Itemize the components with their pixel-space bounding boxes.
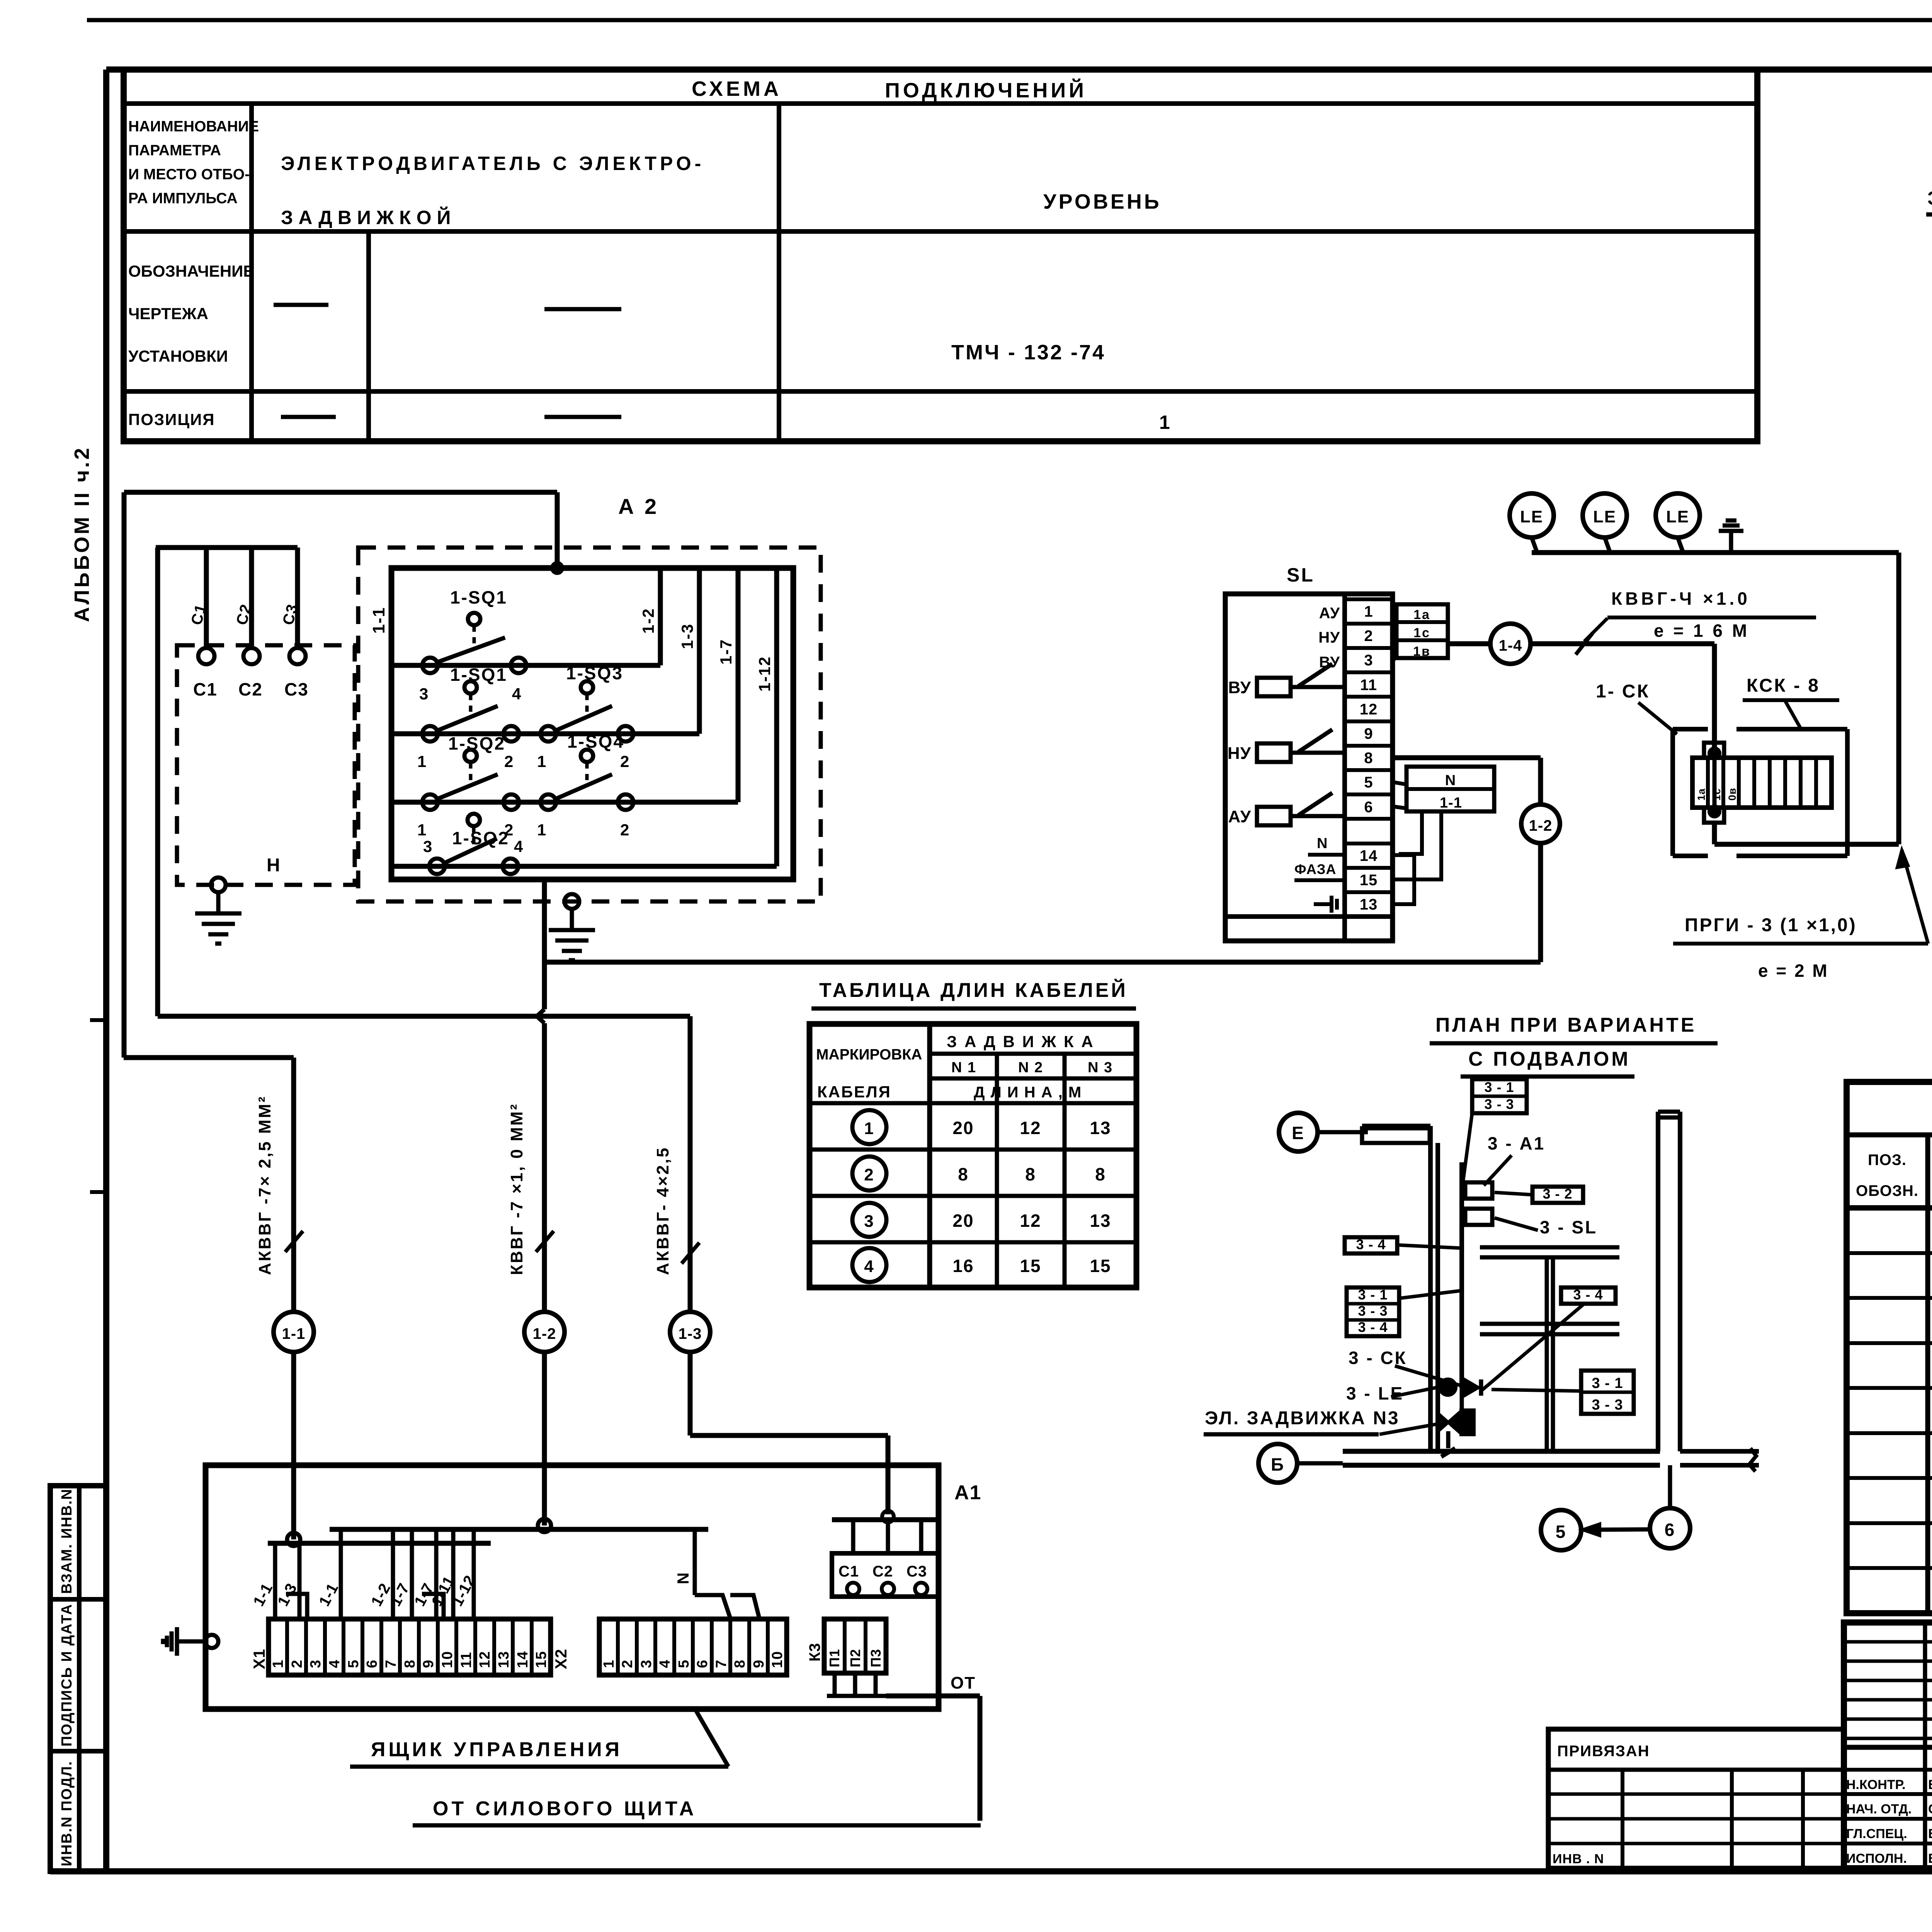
terminal circles C1C2C3 <box>847 1583 927 1595</box>
top table dash r3c1 <box>281 415 336 419</box>
svg-text:1: 1 <box>537 821 547 839</box>
spec row line <box>1847 1296 1932 1300</box>
svg-text:НАЧ. ОТД.: НАЧ. ОТД. <box>1846 1802 1912 1816</box>
svg-text:ПОЗИЦИЯ: ПОЗИЦИЯ <box>128 410 215 429</box>
svg-text:LE: LE <box>1593 507 1616 526</box>
valve N3 motor rect <box>1461 1410 1474 1434</box>
hook terminal6 <box>1393 806 1406 808</box>
label box 3-1 3-3 top <box>1472 1079 1527 1113</box>
wire A2 entry drop <box>555 492 560 568</box>
svg-text:11: 11 <box>458 1652 474 1668</box>
svg-text:НАИМЕНОВАНИЕ: НАИМЕНОВАНИЕ <box>128 118 259 135</box>
cable table header text markirovka <box>816 1046 922 1101</box>
svg-text:C1: C1 <box>193 679 218 699</box>
label C1 <box>193 679 218 699</box>
svg-text:16: 16 <box>952 1256 974 1276</box>
svg-text:N 1: N 1 <box>951 1060 976 1076</box>
hook terminal3 to box <box>1393 657 1396 661</box>
cable table marker 3 <box>852 1203 886 1237</box>
svg-text:Х1: Х1 <box>250 1649 268 1669</box>
wire X1 drop 1-11 <box>451 1529 456 1619</box>
svg-text:1-3: 1-3 <box>679 1325 702 1342</box>
jumper X1 b <box>422 1594 444 1618</box>
switch 1-SQ2 contact 3-4 <box>423 814 524 874</box>
svg-text:ПАРАМЕТРА: ПАРАМЕТРА <box>128 142 221 159</box>
svg-text:1- СК: 1- СК <box>1596 681 1650 702</box>
cable table values row 1 <box>952 1118 1111 1138</box>
svg-text:8: 8 <box>958 1164 969 1184</box>
wire N bundle a <box>1399 811 1422 854</box>
leader 3-1 3-3 right <box>1492 1389 1581 1391</box>
svg-text:1-SQ3: 1-SQ3 <box>566 663 623 683</box>
wire 3 riser to valve <box>1460 1388 1464 1412</box>
svg-text:12: 12 <box>1020 1118 1041 1138</box>
wire splitter bus <box>156 545 298 550</box>
svg-text:N 3: N 3 <box>1088 1060 1113 1076</box>
wire N bundle b <box>1393 811 1441 879</box>
svg-text:Б: Б <box>1271 1454 1285 1475</box>
basement wall bottom a <box>1343 1449 1660 1454</box>
svg-text:3: 3 <box>308 1660 324 1668</box>
sensor circle LE 2 <box>1583 493 1627 553</box>
svg-text:20: 20 <box>952 1211 974 1231</box>
jumper X1 a <box>286 1594 307 1618</box>
svg-text:2: 2 <box>289 1660 305 1668</box>
svg-text:N: N <box>1445 772 1457 789</box>
svg-text:2: 2 <box>1364 628 1373 645</box>
svg-text:9: 9 <box>1364 725 1373 742</box>
drawing frame bottom <box>50 1868 1932 1874</box>
svg-text:12: 12 <box>477 1651 493 1668</box>
wire K3 stubs <box>827 1673 886 1696</box>
svg-text:КВВГ-Ч ×1.0: КВВГ-Ч ×1.0 <box>1611 588 1750 609</box>
cable table header zadvizhka line <box>930 1052 1136 1056</box>
svg-text:15: 15 <box>1360 872 1378 889</box>
cable table header nums line <box>930 1077 1136 1081</box>
svg-text:ЧЕРТЕЖА: ЧЕРТЕЖА <box>128 304 208 323</box>
switch 1-SQ4 contact 1-2 <box>537 731 633 839</box>
svg-text:15: 15 <box>1090 1256 1111 1276</box>
svg-text:ТАБЛИЦА ДЛИН КАБЕЛЕЙ: ТАБЛИЦА ДЛИН КАБЕЛЕЙ <box>819 979 1128 1002</box>
svg-text:15: 15 <box>533 1651 549 1668</box>
label 1-CK <box>1596 681 1677 734</box>
svg-text:КСК - 8: КСК - 8 <box>1747 675 1820 696</box>
basement beam 1 <box>1480 1247 1619 1257</box>
marker circle 1-1 <box>274 1312 314 1352</box>
node 3-LE sensor <box>1440 1379 1456 1395</box>
left stamp label vzam <box>59 1488 75 1594</box>
label box 3-4 left <box>1345 1236 1397 1253</box>
dashed box H motor <box>177 645 355 885</box>
svg-text:1-2: 1-2 <box>639 608 657 634</box>
cable table header text N2 <box>1018 1060 1043 1076</box>
svg-text:0в: 0в <box>1726 787 1738 801</box>
svg-text:З А Д В И Ж К А: З А Д В И Ж К А <box>947 1032 1095 1051</box>
label el zadvizhka N3 <box>1204 1408 1436 1434</box>
spec col line poz <box>1925 1135 1930 1613</box>
terminal C1 <box>198 648 214 664</box>
valve N3 bowtie <box>1438 1413 1458 1431</box>
wire A2 left drop <box>122 492 127 1058</box>
basement riser wire <box>1459 1162 1464 1388</box>
wire top bus to A2 <box>124 490 557 495</box>
label A1 <box>954 1481 981 1504</box>
svg-text:11: 11 <box>1360 677 1377 694</box>
svg-text:N 2: N 2 <box>1018 1060 1043 1076</box>
svg-text:ОТ СИЛОВОГО ЩИТА: ОТ СИЛОВОГО ЩИТА <box>433 1798 697 1820</box>
svg-text:4: 4 <box>657 1660 673 1668</box>
svg-text:1-3: 1-3 <box>678 623 696 649</box>
bus X1 left <box>268 1541 491 1546</box>
svg-text:АКВВГ -7× 2,5 ММ²: АКВВГ -7× 2,5 ММ² <box>255 1095 274 1275</box>
spec header poz <box>1856 1151 1918 1199</box>
basement wall bottom b <box>1343 1463 1660 1468</box>
svg-text:3 - SL: 3 - SL <box>1540 1217 1597 1237</box>
spec row line <box>1847 1386 1932 1390</box>
node wire 1-1 terminal <box>287 1533 300 1546</box>
SL switch NU <box>1228 730 1345 763</box>
box 1a 1c 1B <box>1396 604 1448 659</box>
top table row label 2 <box>128 262 254 365</box>
svg-text:ОТ: ОТ <box>951 1673 976 1692</box>
title grid rows <box>1844 1642 1932 1738</box>
switch 1-SQ3 contact 1-2 <box>537 663 633 770</box>
terminal strip K3 labels <box>827 1649 884 1667</box>
core label 1-2 <box>368 1580 394 1609</box>
svg-text:20: 20 <box>952 1118 974 1138</box>
svg-text:2: 2 <box>504 752 514 770</box>
svg-text:14: 14 <box>1360 847 1378 864</box>
top table outer border <box>124 70 1757 441</box>
svg-text:7: 7 <box>383 1660 399 1668</box>
top table dash r3c2 <box>544 415 621 419</box>
svg-text:ЯЩИК УПРАВЛЕНИЯ: ЯЩИК УПРАВЛЕНИЯ <box>371 1738 622 1761</box>
svg-text:3 - 4: 3 - 4 <box>1358 1319 1388 1335</box>
KCK-8 top clamp <box>1704 743 1724 758</box>
node cable 1-3 entry <box>882 1511 894 1522</box>
svg-text:4: 4 <box>864 1257 874 1276</box>
switch 1-SQ1 contact 3-4 <box>419 587 526 703</box>
svg-text:LE: LE <box>1520 507 1543 526</box>
privyazan rows <box>1548 1794 1844 1844</box>
wire X1 drop 1-3 <box>298 1543 302 1619</box>
svg-text:3 - А1: 3 - А1 <box>1488 1133 1545 1153</box>
top table row label 3 <box>128 410 215 429</box>
wire cable 1-3 vertical <box>688 1016 693 1312</box>
svg-text:9: 9 <box>420 1660 437 1668</box>
svg-text:2: 2 <box>864 1165 874 1184</box>
dashed box A2 <box>358 548 821 901</box>
node cable entry top <box>1709 748 1719 759</box>
equipment rect 3-SL <box>1465 1209 1492 1225</box>
cable mark slash 1-3 <box>682 1243 699 1264</box>
valve N3 stem <box>1441 1431 1455 1457</box>
wire line A 1-2 horizontal <box>544 960 1541 965</box>
svg-text:ПРГИ - 3 (1 ×1,0): ПРГИ - 3 (1 ×1,0) <box>1685 915 1857 935</box>
node wire 1-2 terminal <box>538 1519 551 1532</box>
core label C3 rotated <box>279 602 301 627</box>
svg-text:1-SQ1: 1-SQ1 <box>450 665 507 685</box>
svg-text:КВВГ -7 ×1, 0 ММ²: КВВГ -7 ×1, 0 ММ² <box>507 1103 526 1275</box>
marker circle 1-4 <box>1490 624 1531 664</box>
left stamp label podpis <box>59 1604 75 1747</box>
switch 1-SQ1 contact 1-2 <box>417 665 519 770</box>
svg-text:4: 4 <box>512 685 522 703</box>
svg-text:БОРОДКИН: БОРОДКИН <box>1928 1777 1932 1792</box>
svg-text:1-1: 1-1 <box>369 607 388 634</box>
label KCK-8 <box>1743 675 1839 728</box>
ground under H box <box>195 892 241 944</box>
svg-text:1: 1 <box>417 752 427 770</box>
KCK-8 box <box>1673 729 1847 856</box>
net label 1-1 rotated <box>369 607 388 634</box>
label K3 <box>806 1643 823 1662</box>
arrow 6 to 5 <box>1583 1524 1649 1536</box>
label X2 <box>552 1649 570 1669</box>
top table title <box>692 77 1087 102</box>
SL switch AU <box>1228 793 1345 826</box>
paper top edge line <box>87 18 1932 22</box>
svg-text:1-12: 1-12 <box>755 656 774 692</box>
svg-text:И МЕСТО ОТБО-: И МЕСТО ОТБО- <box>128 166 250 183</box>
core label C1 rotated <box>188 602 210 627</box>
axis circle E <box>1279 1113 1368 1151</box>
riser label 1-12 <box>755 656 774 692</box>
spec table header line <box>1847 1133 1932 1138</box>
svg-text:АЛЬБОМ II ч.2: АЛЬБОМ II ч.2 <box>70 446 94 622</box>
SL strip inner bottom line <box>1225 914 1393 919</box>
label X1 <box>250 1649 268 1669</box>
svg-text:2: 2 <box>620 752 630 770</box>
top table column line C <box>777 104 781 441</box>
svg-text:Н: Н <box>267 855 281 876</box>
svg-text:5: 5 <box>1364 774 1373 791</box>
svg-text:Н.КОНТР.: Н.КОНТР. <box>1846 1777 1906 1792</box>
svg-text:УСТАНОВКИ: УСТАНОВКИ <box>128 347 228 365</box>
riser label 1-3 <box>678 623 696 649</box>
wire X1 drop 1-2 <box>391 1529 395 1619</box>
terminal A2 ground node <box>565 894 579 909</box>
svg-text:П3: П3 <box>868 1649 884 1667</box>
svg-text:13: 13 <box>1360 896 1378 913</box>
cable table row line <box>810 1240 1136 1245</box>
wire t8 to 1-2 <box>1393 758 1541 804</box>
top table cell electrodvigatel <box>281 153 704 228</box>
svg-text:5: 5 <box>1556 1522 1567 1542</box>
svg-text:C2: C2 <box>238 679 263 699</box>
wire column to circle 6 <box>1668 1465 1672 1508</box>
privyazan header line <box>1548 1768 1844 1772</box>
svg-text:3: 3 <box>423 837 433 855</box>
label C3 <box>284 679 309 699</box>
svg-text:ОБОЗН.: ОБОЗН. <box>1856 1182 1918 1199</box>
svg-text:1: 1 <box>537 752 547 770</box>
svg-text:Д Л И Н А , М: Д Л И Н А , М <box>974 1084 1082 1101</box>
svg-text:1в: 1в <box>1413 644 1431 659</box>
svg-text:ЭЛЕКТРОДВИГАТЕЛЬ С ЭЛЕКТРО: ЭЛЕКТРОДВИГАТЕЛЬ С ЭЛЕКТРО- <box>281 153 704 174</box>
core label C2 rotated <box>233 602 255 627</box>
svg-text:3 - 1: 3 - 1 <box>1592 1375 1623 1391</box>
svg-text:1-SQ4: 1-SQ4 <box>567 731 624 752</box>
wire 1-3 to A1 <box>690 1352 888 1514</box>
cable table header dlina line <box>810 1101 1136 1105</box>
svg-text:1-1: 1-1 <box>282 1325 306 1342</box>
KCK-8 terminal strip <box>1692 758 1832 808</box>
cable mark slash 1-4 <box>1576 633 1593 655</box>
spec row line <box>1847 1566 1932 1570</box>
basement wall bottom right ext <box>1680 1448 1759 1471</box>
cable table col line N1N2 <box>995 1054 999 1287</box>
label PRGI <box>1673 915 1928 981</box>
axis circle B <box>1259 1444 1343 1483</box>
svg-text:3 - 2: 3 - 2 <box>1543 1186 1572 1202</box>
symbol 3-CK clamp <box>1464 1379 1481 1396</box>
label 3-CK <box>1349 1348 1464 1386</box>
spec row line <box>1847 1251 1932 1255</box>
ground under A2 box <box>549 909 595 960</box>
cable label KVVG 4x1.0 <box>1607 588 1816 641</box>
svg-text:К3: К3 <box>806 1643 823 1662</box>
cable table col line 1 <box>927 1024 932 1287</box>
wire OT exit <box>886 1696 980 1821</box>
basement wall left b <box>1435 1143 1440 1451</box>
terminal strip X2 outline <box>599 1619 787 1675</box>
leader 3-1 3-3 top <box>1463 1113 1472 1182</box>
svg-text:1: 1 <box>417 821 427 839</box>
cable table header text N1 <box>951 1060 976 1076</box>
svg-text:АКВВГ- 4×2,5: АКВВГ- 4×2,5 <box>653 1146 672 1275</box>
wire C2 drop <box>249 548 254 648</box>
svg-text:П1: П1 <box>827 1649 842 1667</box>
wire A2 to cable 1-2 <box>542 879 547 962</box>
svg-text:N: N <box>674 1571 692 1584</box>
cable table row line <box>810 1194 1136 1198</box>
svg-text:3 - СК: 3 - СК <box>1349 1348 1407 1368</box>
cable table values row 2 <box>958 1164 1106 1184</box>
sensor circle LE 3 <box>1656 493 1700 553</box>
svg-text:ГЛ.СПЕЦ.: ГЛ.СПЕЦ. <box>1846 1827 1907 1841</box>
svg-text:SL: SL <box>1287 564 1315 586</box>
svg-text:ТМЧ - 132 -74: ТМЧ - 132 -74 <box>951 341 1105 364</box>
svg-text:ПРИВЯЗАН: ПРИВЯЗАН <box>1557 1743 1650 1760</box>
svg-text:ВУ: ВУ <box>1228 678 1251 697</box>
cable table marker 4 <box>852 1248 886 1282</box>
basement wall left a <box>1428 1126 1433 1451</box>
wire line C 1-1 horizontal <box>124 1055 294 1060</box>
album label rotated <box>70 446 94 622</box>
svg-text:1-4: 1-4 <box>1499 637 1522 654</box>
wire C3 drop <box>295 548 300 648</box>
privyazan label <box>1557 1743 1650 1760</box>
svg-text:БОРОДКИН: БОРОДКИН <box>1928 1827 1932 1841</box>
svg-text:ЭЛ. ЗАДВИЖКА N2: ЭЛ. ЗАДВИЖКА N2 <box>1927 187 1932 209</box>
title mid thick line <box>1844 1745 1932 1750</box>
top table cell tmch <box>951 341 1105 364</box>
core label 1-7 <box>387 1580 413 1609</box>
svg-text:1-7: 1-7 <box>717 639 735 665</box>
svg-text:ФАЗА: ФАЗА <box>1294 861 1336 877</box>
top table column line B <box>366 231 371 441</box>
svg-text:3 - 4: 3 - 4 <box>1356 1236 1386 1252</box>
leader 3-4 left <box>1397 1245 1461 1248</box>
wire X1 drop 1-1 <box>339 1529 343 1619</box>
leader KVVG label <box>1584 618 1607 641</box>
svg-text:ПЛАН ПРИ ВАРИАНТЕ: ПЛАН ПРИ ВАРИАНТЕ <box>1435 1014 1696 1036</box>
wire through strip <box>1713 757 1717 810</box>
title block outer <box>1844 1622 1932 1868</box>
cable table title <box>811 979 1136 1009</box>
block label A2 <box>618 494 659 519</box>
svg-text:N: N <box>1317 835 1328 852</box>
basement beam 2 <box>1480 1324 1619 1334</box>
label box 3-1 3-3 right <box>1581 1371 1634 1414</box>
top table row line 2 <box>124 389 1757 394</box>
SL label N <box>1308 835 1345 855</box>
basement wall top <box>1362 1124 1430 1128</box>
label SL <box>1287 564 1315 586</box>
svg-text:ИНВ.N ПОДЛ.: ИНВ.N ПОДЛ. <box>59 1761 75 1866</box>
top table header line <box>124 101 1757 106</box>
wire X1 drop 1-1 <box>273 1543 277 1619</box>
riser wire 1-3 <box>697 568 702 734</box>
svg-text:3 - 1: 3 - 1 <box>1484 1079 1514 1095</box>
privyazan table outer <box>1548 1729 1844 1868</box>
svg-text:ПОЗ.: ПОЗ. <box>1868 1151 1906 1168</box>
wire 1-2 down <box>1538 843 1543 962</box>
terminal strip X1 cells <box>270 1619 549 1675</box>
leader 3cell <box>1399 1291 1462 1298</box>
svg-text:1-1: 1-1 <box>1440 795 1462 811</box>
top table column line A <box>249 104 254 441</box>
svg-text:C3: C3 <box>284 679 309 699</box>
svg-text:3 - 4: 3 - 4 <box>1573 1287 1603 1303</box>
svg-text:С ПОДВАЛОМ: С ПОДВАЛОМ <box>1468 1048 1631 1070</box>
terminal strip X1 outline <box>269 1619 551 1675</box>
equipment rect 3-A1 <box>1465 1182 1492 1199</box>
title grid v1 <box>1923 1622 1927 1868</box>
svg-text:3: 3 <box>864 1212 874 1231</box>
svg-text:ЗАДВИЖКОЙ: ЗАДВИЖКОЙ <box>281 206 456 228</box>
bus X1 right <box>330 1527 708 1532</box>
svg-text:НУ: НУ <box>1318 629 1340 646</box>
svg-text:УРОВЕНЬ: УРОВЕНЬ <box>1043 190 1162 213</box>
riser label 1-2 <box>639 608 657 634</box>
svg-text:ОБОЗНАЧЕНИЕ: ОБОЗНАЧЕНИЕ <box>128 262 254 280</box>
SL label gnd <box>1314 896 1337 913</box>
core label 1-1 <box>316 1580 342 1609</box>
switch 1-SQ2 contact 1-2 <box>417 733 519 839</box>
svg-text:1: 1 <box>864 1119 874 1138</box>
svg-text:3: 3 <box>638 1660 655 1668</box>
label H <box>267 855 281 876</box>
SL label faza <box>1294 861 1345 880</box>
basement column <box>1547 1257 1553 1450</box>
label box 3-4 right <box>1561 1287 1616 1304</box>
svg-text:П2: П2 <box>847 1649 863 1667</box>
wire cable 1-2 vertical <box>537 962 544 1312</box>
left frame tick b <box>90 1190 106 1194</box>
top table dash r2c2 <box>544 307 621 311</box>
svg-text:С1: С1 <box>838 1563 859 1580</box>
wires C1C2C3 up <box>832 1520 939 1553</box>
terminal C2 <box>243 648 260 664</box>
svg-text:4: 4 <box>327 1660 343 1668</box>
wire SQ row4 <box>391 864 777 869</box>
core label 1-7 <box>411 1580 437 1609</box>
svg-text:ПОДКЛЮЧЕНИЙ: ПОДКЛЮЧЕНИЙ <box>885 78 1087 102</box>
svg-text:3 - 3: 3 - 3 <box>1484 1096 1514 1112</box>
leader PRGI arrow <box>1897 850 1928 944</box>
